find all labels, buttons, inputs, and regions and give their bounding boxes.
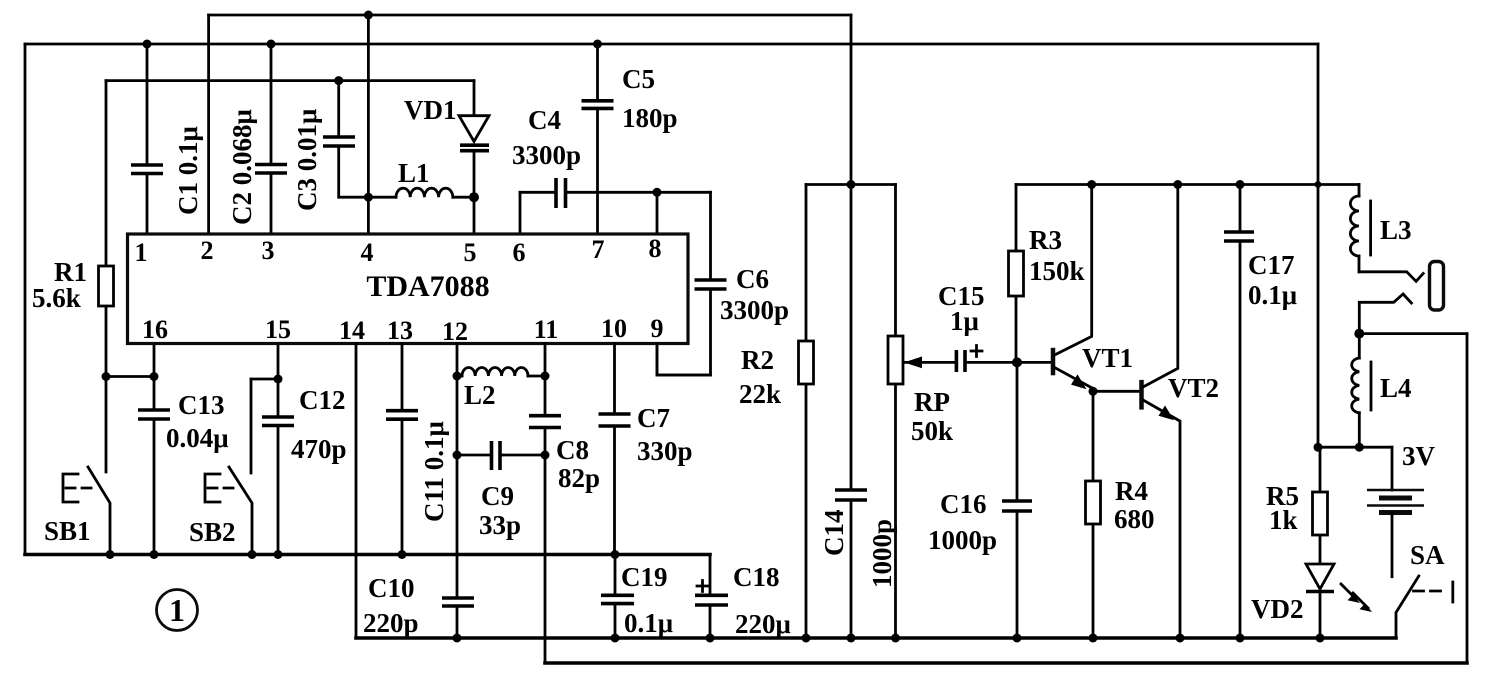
node SB2 on rail <box>248 550 257 559</box>
svg-text:R4: R4 <box>1115 476 1148 506</box>
svg-text:C10: C10 <box>368 573 415 603</box>
node VT1 base / R3 bottom <box>1012 357 1022 367</box>
wire left border down to mid rail <box>24 44 27 555</box>
capacitor C3 <box>323 81 368 198</box>
svg-text:3V: 3V <box>1402 441 1436 471</box>
resistor R3 <box>1009 185 1024 363</box>
node L4 bottom <box>1355 443 1364 452</box>
svg-text:C3 0.01μ: C3 0.01μ <box>292 109 322 211</box>
svg-text:VD1: VD1 <box>404 95 457 125</box>
capacitor C2 <box>255 44 287 234</box>
svg-text:1: 1 <box>169 592 185 628</box>
svg-text:VT1: VT1 <box>1082 343 1133 373</box>
svg-text:50k: 50k <box>911 416 953 446</box>
svg-text:470p: 470p <box>291 434 347 464</box>
battery GB 3V <box>1367 447 1424 577</box>
svg-text:13: 13 <box>387 316 413 345</box>
svg-text:82p: 82p <box>558 463 600 493</box>
node pin8 on C4 line <box>653 188 662 197</box>
wire supply top line (y=44) <box>25 43 1318 46</box>
svg-text:1k: 1k <box>1269 505 1298 535</box>
svg-text:C9: C9 <box>481 481 514 511</box>
LED VD2 <box>1306 564 1372 638</box>
svg-text:C17: C17 <box>1248 250 1295 280</box>
svg-text:4: 4 <box>361 238 374 267</box>
capacitor C16 <box>1002 362 1032 638</box>
svg-text:5.6k: 5.6k <box>32 283 81 313</box>
svg-text:180p: 180p <box>622 103 678 133</box>
wire mid rail (y=554.5) <box>25 553 710 557</box>
transistor VT1 <box>1053 185 1093 392</box>
svg-text:L3: L3 <box>1380 215 1412 245</box>
svg-text:L1: L1 <box>398 158 430 188</box>
svg-text:1000p: 1000p <box>928 525 997 555</box>
wire SB2 to pin15 <box>251 378 278 381</box>
capacitor C15 electrolytic <box>956 346 1017 373</box>
svg-text:2: 2 <box>201 236 214 265</box>
svg-text:0.1μ: 0.1μ <box>624 608 673 638</box>
node C14 on lower rail <box>847 634 856 643</box>
node C14 branch x mid horizontal <box>847 180 856 189</box>
IC U1 TDA7088 body <box>128 234 689 344</box>
svg-text:220p: 220p <box>363 608 419 638</box>
node C2 top <box>267 40 276 49</box>
svg-text:3: 3 <box>262 236 275 265</box>
node C9 left <box>453 451 462 460</box>
wire amp supply rail (y=184.5) <box>1016 183 1359 186</box>
svg-text:C1 0.1μ: C1 0.1μ <box>173 126 203 215</box>
svg-text:VT2: VT2 <box>1168 373 1219 403</box>
wire pin 12 line down <box>456 344 459 599</box>
capacitor C4 with link line pin6 to pin8 (y=192.3) <box>520 178 711 234</box>
varicap diode VD1 <box>459 81 489 198</box>
inductor L2 <box>457 368 545 377</box>
node C19 on lower rail <box>611 634 620 643</box>
node C18 on lower rail <box>706 634 715 643</box>
node battery plus junction <box>1314 443 1323 452</box>
node VT2 collector on rail <box>1173 180 1182 189</box>
wire C14 branch top junction (y=184.5) <box>806 183 896 186</box>
inductor L1 <box>368 188 474 197</box>
svg-text:C11 0.1μ: C11 0.1μ <box>419 421 449 522</box>
inductor L4 <box>1352 334 1371 448</box>
wire pin 14 down to lower rail <box>355 344 358 639</box>
node C19 top on mid rail <box>611 550 620 559</box>
wire pin 5 stub <box>473 197 476 234</box>
earphone plug <box>1430 262 1444 311</box>
svg-text:220μ: 220μ <box>735 609 791 639</box>
node C13 on rail <box>150 550 159 559</box>
svg-text:6: 6 <box>513 238 526 267</box>
capacitor C19 <box>601 555 634 639</box>
resistor R2 <box>799 185 814 639</box>
svg-text:1: 1 <box>135 238 148 267</box>
wire pin 9 link to C6 <box>657 344 711 376</box>
node VD2 on lower rail <box>1316 634 1325 643</box>
switch SA <box>1396 576 1453 638</box>
resistor R1 <box>99 81 114 472</box>
svg-text:11: 11 <box>534 315 559 344</box>
capacitor C5 <box>582 44 614 234</box>
inductor L3 <box>1350 185 1370 272</box>
svg-text:VD2: VD2 <box>1251 594 1304 624</box>
node VT1 emitter junction <box>1089 387 1098 396</box>
svg-text:330p: 330p <box>637 436 693 466</box>
node C16 on lower rail <box>1013 634 1022 643</box>
earphone jack lower contact <box>1359 294 1411 334</box>
node SB1 on rail <box>106 550 115 559</box>
capacitor C1 <box>131 44 163 234</box>
node C1 top <box>143 40 152 49</box>
svg-text:TDA7088: TDA7088 <box>366 270 489 303</box>
svg-text:5: 5 <box>464 238 477 267</box>
node L1 right / pin5 / VD1 <box>469 192 479 202</box>
wire top line pins2-4 to C14 branch (y=15) <box>209 14 851 17</box>
switch SB1 <box>63 467 110 555</box>
capacitor C10 <box>442 598 474 638</box>
wire right border down <box>1466 334 1469 663</box>
wire pin16 horizontal link <box>106 375 154 378</box>
node C5 top <box>593 40 602 49</box>
svg-text:7: 7 <box>592 235 605 264</box>
capacitor C6 <box>657 192 727 375</box>
wire pin16 tuning line (y=80.6) <box>106 79 474 82</box>
svg-text:3300p: 3300p <box>512 140 581 170</box>
figure number 1 <box>157 590 198 631</box>
node L1 left / pin4 <box>364 193 373 202</box>
wire VT2 base link <box>1093 390 1142 393</box>
capacitor C13 <box>138 377 170 555</box>
capacitor C9 <box>457 441 545 470</box>
svg-text:0.1μ: 0.1μ <box>1248 280 1297 310</box>
wire battery plus drop from top line <box>1317 44 1320 447</box>
earphone jack top contact <box>1359 272 1423 282</box>
svg-text:1000p: 1000p <box>867 519 897 588</box>
node R4 on lower rail <box>1089 634 1098 643</box>
svg-text:14: 14 <box>339 316 365 345</box>
capacitor C12 <box>262 344 294 555</box>
wire battery plus line (y=447.2) <box>1318 446 1392 449</box>
svg-text:16: 16 <box>142 315 168 344</box>
node VT1 collector on rail <box>1087 180 1096 189</box>
capacitor C18 electrolytic <box>695 555 728 639</box>
node R2 on lower rail <box>802 634 811 643</box>
wire bottom line pin11 (y=663) <box>545 661 1467 665</box>
capacitor C17 <box>1224 185 1254 639</box>
svg-text:15: 15 <box>265 315 291 344</box>
node C12 on rail <box>274 550 283 559</box>
svg-text:C19: C19 <box>621 562 668 592</box>
svg-text:SA: SA <box>1410 540 1445 570</box>
capacitor C8 <box>529 344 561 664</box>
svg-text:R2: R2 <box>741 345 774 375</box>
node C9 right <box>541 451 550 460</box>
svg-text:C7: C7 <box>637 403 670 433</box>
wire pin 16 stub <box>153 344 156 377</box>
svg-text:12: 12 <box>442 317 468 346</box>
resistor R4 <box>1086 391 1101 638</box>
node C17 top on rail <box>1236 180 1245 189</box>
node pin16 line x link <box>150 372 159 381</box>
resistor R5 <box>1313 447 1328 564</box>
svg-text:R3: R3 <box>1029 225 1062 255</box>
svg-text:C13: C13 <box>178 390 225 420</box>
svg-text:1μ: 1μ <box>950 306 979 336</box>
svg-text:0.04μ: 0.04μ <box>166 423 229 453</box>
node L2 right / pin11 <box>541 372 550 381</box>
svg-text:RP: RP <box>914 387 950 417</box>
transistor VT2 <box>1142 185 1181 639</box>
svg-text:C18: C18 <box>733 562 780 592</box>
node C10 on lower rail <box>453 634 462 643</box>
wire return line to right border (y=333.6) <box>1359 332 1467 335</box>
node earphone return junction <box>1354 329 1364 339</box>
capacitor C11 <box>386 344 418 555</box>
svg-text:C2 0.068μ: C2 0.068μ <box>227 109 257 225</box>
svg-text:8: 8 <box>649 234 662 263</box>
svg-text:L2: L2 <box>464 380 496 410</box>
svg-text:3300p: 3300p <box>720 295 789 325</box>
node junction top line x pin4 <box>364 11 373 20</box>
svg-text:L4: L4 <box>1380 373 1412 403</box>
wire VT1 base link <box>1017 361 1053 364</box>
wire lower rail (y=638) <box>356 636 1396 640</box>
svg-text:22k: 22k <box>739 379 781 409</box>
svg-text:33p: 33p <box>479 510 521 540</box>
node RP on lower rail <box>891 634 900 643</box>
svg-text:150k: 150k <box>1029 256 1085 286</box>
svg-text:SB2: SB2 <box>189 517 236 547</box>
svg-text:C8: C8 <box>556 435 589 465</box>
wire pin 2 drop <box>207 15 210 234</box>
potentiometer RP <box>888 185 956 639</box>
svg-text:9: 9 <box>651 314 664 343</box>
node C3 top <box>334 76 343 85</box>
svg-text:680: 680 <box>1114 504 1155 534</box>
svg-text:C4: C4 <box>528 105 561 135</box>
node battery drop x amp rail <box>1315 181 1322 188</box>
node VT2 emitter on lower rail <box>1176 634 1185 643</box>
node C17 on lower rail <box>1236 634 1245 643</box>
wire pin 4 drop <box>367 15 370 234</box>
svg-text:C12: C12 <box>299 385 346 415</box>
svg-text:C6: C6 <box>736 264 769 294</box>
switch SB2 <box>205 379 252 555</box>
node L2 left / pin12 <box>453 372 462 381</box>
svg-text:C5: C5 <box>622 64 655 94</box>
node C11 on mid rail <box>398 550 407 559</box>
node R1 line x pin16 link <box>102 372 111 381</box>
svg-text:C14: C14 <box>819 510 849 557</box>
svg-text:C16: C16 <box>940 489 987 519</box>
svg-text:10: 10 <box>601 314 627 343</box>
capacitor C7 <box>599 344 631 555</box>
capacitor C14 <box>835 15 867 638</box>
svg-text:SB1: SB1 <box>44 516 91 546</box>
node SB2 top on pin15 line <box>274 375 283 384</box>
